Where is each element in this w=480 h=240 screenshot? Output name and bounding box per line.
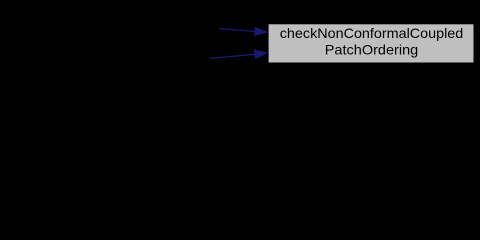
wire arrow 2 (caller edge, bottom) xyxy=(210,50,268,58)
wire arrow 1 (caller edge, top) xyxy=(219,27,267,35)
svg-text:checkNonConformalCoupled: checkNonConformalCoupled xyxy=(280,26,464,41)
svg-text:PatchOrdering: PatchOrdering xyxy=(325,43,419,58)
node checkNonConformalCoupledPatchOrdering xyxy=(268,23,475,63)
